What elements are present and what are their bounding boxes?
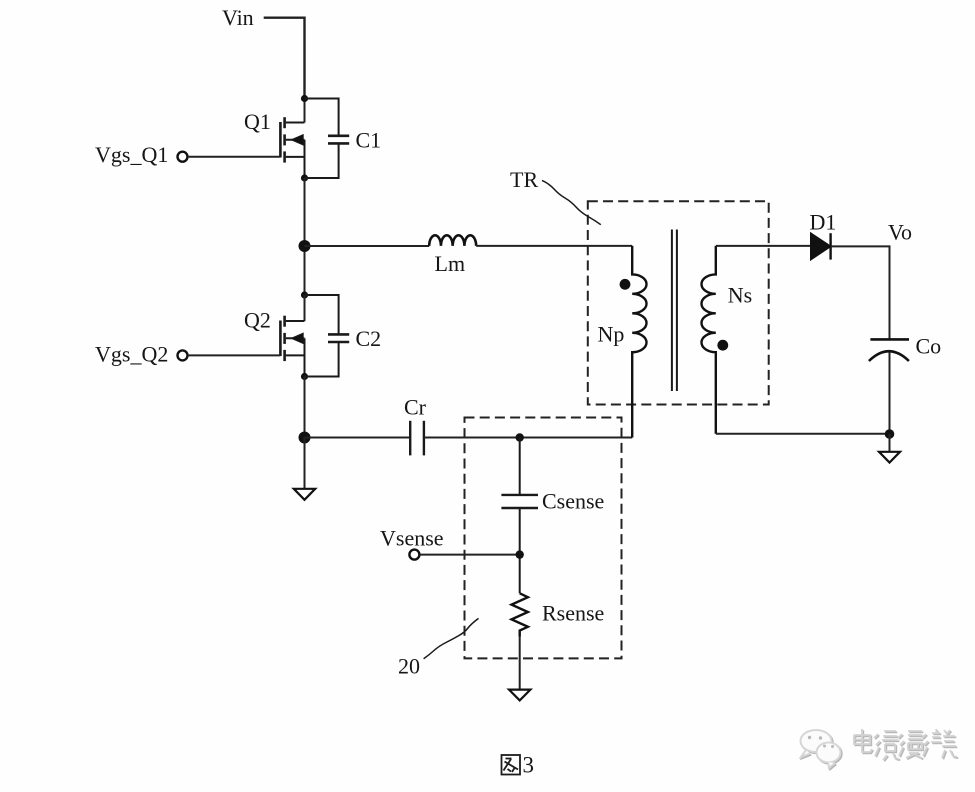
terminal Vsense: [409, 550, 419, 560]
svg-text:Q2: Q2: [244, 308, 271, 333]
junction secondary ground: [885, 429, 895, 439]
winding Ns: [701, 246, 715, 434]
svg-text:Vin: Vin: [222, 5, 254, 30]
capacitor Co: [869, 339, 909, 361]
watermark text 电源漫谈: [855, 730, 958, 761]
wire Q2 drain: [304, 295, 306, 321]
junction Q1 source: [301, 174, 308, 181]
svg-text:20: 20: [398, 654, 420, 679]
capacitor Cr: [410, 421, 424, 456]
svg-text:TR: TR: [510, 167, 538, 192]
wire Cr to Np bottom: [424, 437, 632, 439]
mosfet Q1: [280, 117, 304, 178]
svg-text:Co: Co: [916, 334, 942, 359]
wire Vin input: [264, 18, 305, 99]
leader TR squiggle: [542, 180, 601, 224]
svg-text:Np: Np: [598, 322, 625, 347]
node resonant junction: [299, 432, 311, 444]
ground bottom: [509, 690, 530, 701]
svg-text:C2: C2: [356, 326, 382, 351]
terminal Vgs_Q1: [178, 152, 188, 162]
wire secondary return: [716, 433, 890, 435]
wire Q2 source to resonant node: [304, 377, 306, 438]
junction Csense top: [516, 433, 524, 441]
wire Vgs_Q1 to gate: [188, 156, 281, 158]
winding Np: [632, 246, 646, 438]
wire node to Cr: [305, 437, 411, 439]
mosfet Q2: [280, 316, 304, 377]
capacitor Csense: [501, 438, 538, 594]
wire Vgs_Q2 to gate: [188, 354, 281, 356]
svg-text:Vsense: Vsense: [380, 526, 444, 551]
core transformer: [672, 230, 677, 392]
svg-text:Ns: Ns: [728, 283, 752, 308]
svg-text:Q1: Q1: [244, 109, 271, 134]
ground left: [294, 489, 315, 500]
watermark wechat logo: [802, 731, 842, 769]
wire Ns to D1: [716, 245, 811, 247]
junction Q2 drain: [301, 291, 308, 298]
wire to ground right: [889, 434, 891, 452]
svg-text:C1: C1: [356, 128, 382, 153]
svg-text:D1: D1: [810, 210, 837, 235]
svg-text:3: 3: [523, 753, 535, 778]
diode D1: [811, 233, 831, 259]
capacitor C1: [305, 99, 350, 179]
resistor Rsense: [512, 593, 528, 636]
wire Lm to Np: [476, 245, 632, 247]
node midpoint junction: [299, 240, 311, 252]
wire Co to ground: [889, 352, 891, 434]
junction Q1 drain: [301, 95, 308, 102]
inductor Lm: [429, 235, 476, 246]
svg-text:Vgs_Q2: Vgs_Q2: [95, 342, 168, 367]
wire Rsense to ground: [519, 637, 521, 690]
wire midpoint to Lm: [305, 245, 430, 247]
svg-text:Csense: Csense: [542, 489, 604, 514]
svg-text:Cr: Cr: [404, 395, 427, 420]
wire to ground left: [304, 438, 306, 489]
svg-text:Vgs_Q1: Vgs_Q1: [95, 142, 168, 167]
sense box 20 (dashed): [465, 418, 622, 659]
junction Q2 source: [301, 373, 308, 380]
wire D1 to Vo: [831, 246, 890, 339]
svg-text:Lm: Lm: [435, 251, 466, 276]
ground right: [879, 452, 900, 463]
dot Np polarity: [620, 279, 631, 290]
terminal Vgs_Q2: [178, 350, 188, 360]
svg-text:Rsense: Rsense: [542, 601, 604, 626]
wire Q1 drain rail: [304, 99, 306, 123]
wire Vsense: [420, 554, 520, 556]
wire half-bridge midpoint rail: [304, 178, 306, 295]
junction Vsense: [516, 550, 524, 558]
leader 20 squiggle: [424, 618, 479, 658]
capacitor C2: [305, 295, 350, 377]
caption 图3: [502, 755, 521, 775]
transformer box TR (dashed): [588, 201, 769, 404]
svg-text:Vo: Vo: [888, 220, 912, 245]
dot Ns polarity: [717, 340, 728, 351]
